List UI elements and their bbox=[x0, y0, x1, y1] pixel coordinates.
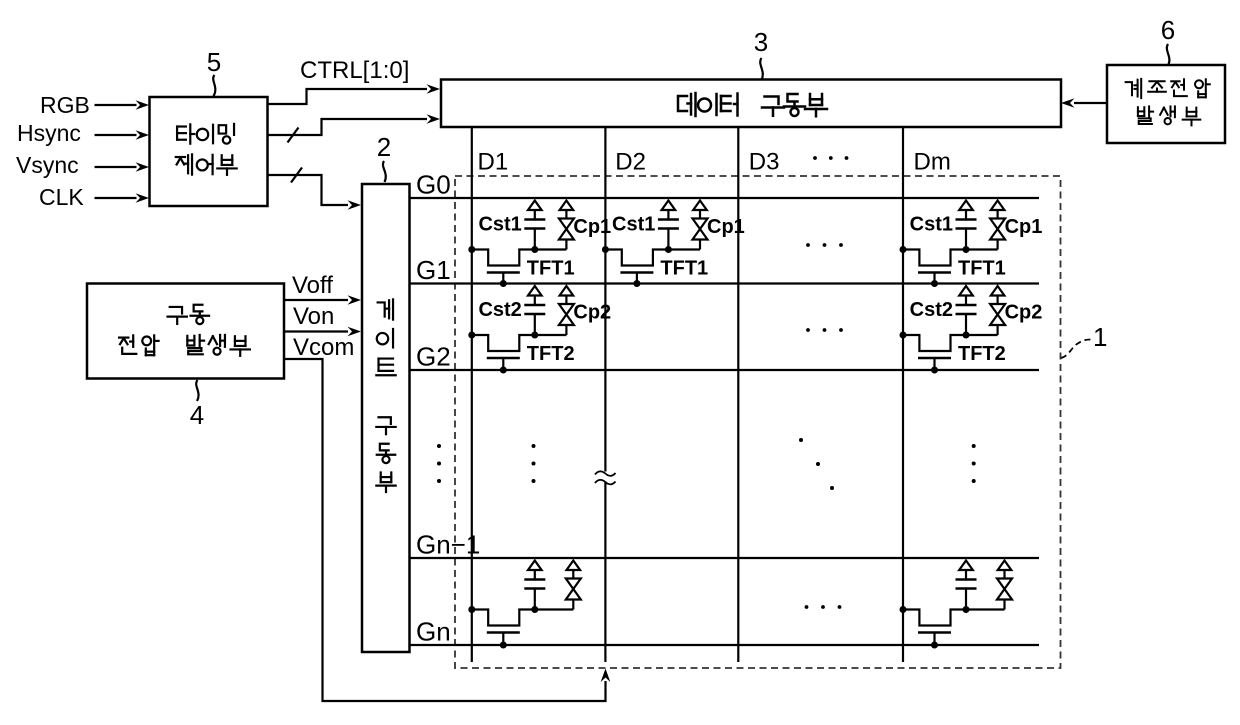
svg-text:Cst1: Cst1 bbox=[910, 214, 953, 236]
junction: data line to TFT source bbox=[468, 246, 475, 253]
wire: Voff output to gate driver bbox=[284, 299, 348, 301]
transistor TFT pixel row Gn/D1: source-drain path bbox=[472, 610, 574, 626]
svg-text:1: 1 bbox=[1093, 322, 1107, 352]
junction: gate to gate line bbox=[931, 280, 938, 287]
svg-text:Cp2: Cp2 bbox=[573, 302, 611, 324]
capacitor Cst row G1/Dm bbox=[959, 286, 973, 296]
capacitor Cp (LC cell) row Gn/D1 bbox=[567, 561, 581, 571]
svg-text:Dm: Dm bbox=[914, 149, 951, 176]
text timing controller line2 (Korean) bbox=[176, 154, 237, 174]
wire: CLK input bbox=[95, 197, 137, 199]
junction: gate to gate line bbox=[931, 367, 938, 374]
svg-text:Voff: Voff bbox=[292, 272, 333, 299]
svg-text:2: 2 bbox=[377, 132, 391, 162]
wire: CTRL[1:0] bus from timing controller to data driver bbox=[268, 89, 428, 104]
transistor TFT pixel row G0/D2: source-drain path bbox=[605, 250, 700, 266]
svg-text:Cst1: Cst1 bbox=[478, 214, 521, 236]
wire: bus 3 from timing controller to gate driver (with slash) bbox=[268, 175, 349, 205]
svg-text:TFT1: TFT1 bbox=[958, 258, 1006, 280]
text gate driver (Korean, vertical) bbox=[376, 299, 395, 492]
junction: Cst to pixel node bbox=[963, 332, 970, 339]
text driving voltage generator line2 (Korean) bbox=[119, 335, 250, 356]
capacitor Cst row Gn/D1 bbox=[528, 561, 542, 571]
capacitor Cp (LC cell) row G1/D1 bbox=[560, 286, 574, 296]
capacitor Cst row Gn/Dm bbox=[959, 561, 973, 571]
block U6 gray voltage generator box bbox=[1107, 65, 1225, 143]
svg-text:TFT2: TFT2 bbox=[958, 343, 1006, 365]
block U4 driving voltage generator box bbox=[87, 284, 284, 379]
wire: data line D3 bbox=[737, 127, 739, 662]
svg-text:Vcom: Vcom bbox=[293, 334, 354, 361]
svg-text:5: 5 bbox=[207, 47, 221, 77]
svg-text:CLK: CLK bbox=[39, 184, 84, 210]
capacitor Cst row G0/D2 bbox=[662, 201, 676, 211]
junction: data line to TFT source bbox=[900, 246, 907, 253]
junction: Cst to pixel node bbox=[531, 606, 538, 613]
bus slash mark bbox=[288, 128, 299, 143]
junction: gate to gate line bbox=[500, 642, 507, 649]
transistor gate electrode bbox=[487, 631, 520, 634]
wire: bus 2 from timing controller to data driver (with slash) bbox=[268, 119, 428, 135]
junction: data line to TFT source bbox=[602, 246, 609, 253]
transistor TFT pixel row G0/Dm: source-drain path bbox=[903, 250, 998, 266]
junction: Cst to pixel node bbox=[963, 246, 970, 253]
break mark on D2 bbox=[595, 471, 616, 476]
wire: RGB input bbox=[95, 104, 137, 106]
wire: Vsync input bbox=[95, 166, 137, 168]
capacitor Cp (LC cell) row G0/D2 bbox=[693, 201, 707, 211]
svg-text:Gn−1: Gn−1 bbox=[416, 530, 480, 560]
block U2 gate driver box bbox=[362, 184, 410, 652]
bus slash mark bbox=[291, 168, 302, 183]
junction: Cst to pixel node bbox=[963, 606, 970, 613]
text driving voltage generator line1 (Korean) bbox=[168, 305, 210, 324]
capacitor Cp (LC cell) row G1/Dm bbox=[991, 286, 1005, 296]
transistor gate electrode bbox=[918, 357, 951, 360]
junction: data line to TFT source bbox=[468, 332, 475, 339]
junction: data line to TFT source bbox=[900, 606, 907, 613]
capacitor Cst row G0/Dm bbox=[959, 201, 973, 211]
svg-text:D2: D2 bbox=[615, 149, 646, 176]
junction: gate to gate line bbox=[500, 280, 507, 287]
svg-text:Cp1: Cp1 bbox=[707, 216, 745, 238]
svg-text:Cst2: Cst2 bbox=[478, 299, 521, 321]
transistor TFT pixel row Gn/Dm: source-drain path bbox=[903, 610, 1005, 626]
capacitor Cst row G0/D1 bbox=[528, 201, 542, 211]
transistor TFT pixel row G1/Dm: source-drain path bbox=[903, 335, 998, 351]
capacitor Cp (LC cell) row Gn/Dm bbox=[998, 561, 1012, 571]
transistor gate electrode bbox=[918, 271, 951, 274]
ellipsis dots vertical (D1 column) bbox=[532, 444, 536, 483]
svg-text:G0: G0 bbox=[416, 170, 451, 200]
text gray voltage generator line2 (Korean) bbox=[1138, 106, 1200, 125]
transistor TFT pixel row G1/D1: source-drain path bbox=[472, 335, 567, 351]
text gray voltage generator line1 (Korean) bbox=[1126, 79, 1210, 98]
svg-text:D1: D1 bbox=[478, 149, 509, 176]
svg-text:Cst2: Cst2 bbox=[910, 299, 953, 321]
ellipsis dots row2 horizontal bbox=[806, 328, 843, 332]
svg-text:TFT1: TFT1 bbox=[527, 258, 575, 280]
transistor gate electrode bbox=[620, 271, 653, 274]
svg-text:6: 6 bbox=[1161, 15, 1175, 45]
wire: gate line Gn bbox=[410, 644, 1040, 646]
svg-text:3: 3 bbox=[754, 27, 768, 57]
wire: gray voltages into data driver bbox=[1074, 102, 1107, 104]
svg-text:Cp1: Cp1 bbox=[1005, 216, 1043, 238]
transistor TFT pixel row G0/D1: source-drain path bbox=[472, 250, 567, 266]
wire: gate line G2 bbox=[410, 369, 1040, 371]
junction: gate to gate line bbox=[500, 367, 507, 374]
capacitor Cst row G1/D1 bbox=[528, 286, 542, 296]
transistor gate electrode bbox=[487, 271, 520, 274]
svg-text:D3: D3 bbox=[749, 149, 780, 176]
junction: Cst to pixel node bbox=[665, 246, 672, 253]
wire: data line Dm bbox=[902, 127, 904, 662]
svg-text:G2: G2 bbox=[416, 342, 451, 372]
text timing controller line1 (Korean) bbox=[177, 124, 234, 144]
ellipsis dots bottom row horizontal bbox=[805, 605, 842, 609]
svg-text:Cst1: Cst1 bbox=[612, 214, 655, 236]
svg-text:RGB: RGB bbox=[40, 92, 90, 118]
transistor gate electrode bbox=[487, 357, 520, 360]
ellipsis dots vertical (Dm column) bbox=[972, 444, 976, 483]
junction: data line to TFT source bbox=[468, 606, 475, 613]
ellipsis dots vertical (gate labels) bbox=[437, 444, 441, 483]
junction: gate to gate line bbox=[931, 642, 938, 649]
junction: Cst to pixel node bbox=[531, 332, 538, 339]
wire: gate line G0 bbox=[410, 197, 1040, 199]
svg-text:TFT1: TFT1 bbox=[660, 258, 708, 280]
svg-text:TFT2: TFT2 bbox=[527, 343, 575, 365]
junction: Cst to pixel node bbox=[531, 246, 538, 253]
svg-text:Vsync: Vsync bbox=[16, 152, 79, 178]
svg-text:Von: Von bbox=[293, 303, 334, 330]
svg-text:4: 4 bbox=[190, 400, 204, 430]
wire: gate line Gn-1 bbox=[410, 557, 1040, 559]
wire: Hsync input bbox=[95, 134, 137, 136]
wire: Von output to gate driver bbox=[284, 330, 348, 332]
capacitor Cp (LC cell) row G0/D1 bbox=[560, 201, 574, 211]
wire: data line D1 bbox=[471, 127, 473, 662]
wire: data line D2 (with break symbol) bbox=[604, 127, 606, 472]
text data driver (Korean) bbox=[678, 93, 827, 116]
junction: data line to TFT source bbox=[900, 332, 907, 339]
junction: gate to gate line bbox=[633, 280, 640, 287]
svg-text:Cp1: Cp1 bbox=[573, 216, 611, 238]
panel box 1 (dashed) bbox=[455, 176, 1061, 668]
wire: gate line G1 bbox=[410, 282, 1040, 284]
svg-text:G1: G1 bbox=[416, 255, 451, 285]
svg-text:Cp2: Cp2 bbox=[1005, 302, 1043, 324]
svg-text:Hsync: Hsync bbox=[17, 120, 81, 146]
block U3 data driver box bbox=[441, 80, 1061, 128]
ellipsis dots row1 horizontal bbox=[806, 243, 843, 247]
transistor gate electrode bbox=[918, 631, 951, 634]
svg-text:Gn: Gn bbox=[416, 617, 451, 647]
wire: Vcom output routed below panel bbox=[284, 359, 606, 701]
svg-text:CTRL[1:0]: CTRL[1:0] bbox=[300, 57, 409, 84]
ellipsis dots diagonal (D3-Dm) bbox=[799, 438, 834, 490]
ellipsis dots after D3 bbox=[813, 156, 848, 160]
block U5 timing controller box bbox=[150, 97, 268, 206]
capacitor Cp (LC cell) row G0/Dm bbox=[991, 201, 1005, 211]
